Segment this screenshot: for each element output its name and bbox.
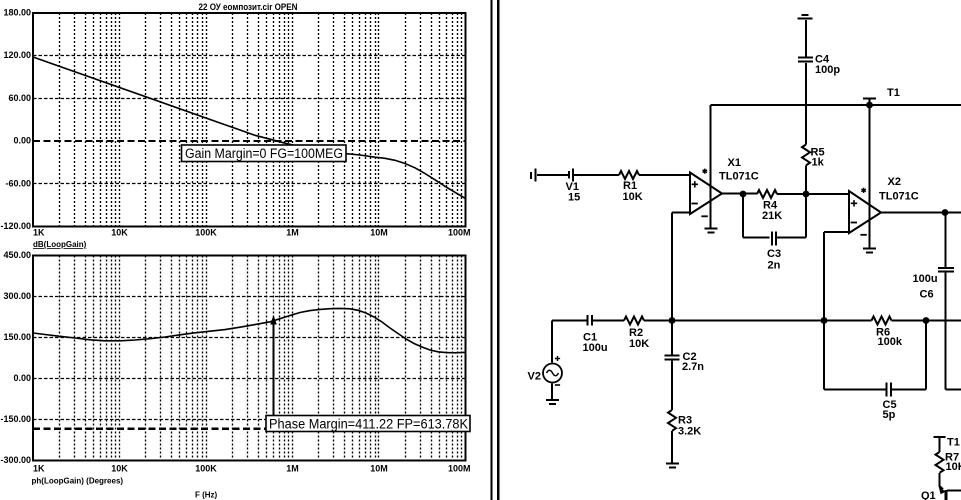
- svg-text:-300.00: -300.00: [0, 455, 31, 465]
- svg-text:-60.00: -60.00: [5, 178, 31, 188]
- svg-text:2n: 2n: [768, 260, 781, 272]
- svg-text:Gain Margin=0 FG=100MEG: Gain Margin=0 FG=100MEG: [185, 146, 343, 161]
- svg-text:15: 15: [568, 192, 580, 204]
- svg-text:2.7n: 2.7n: [682, 361, 704, 373]
- svg-text:100K: 100K: [195, 464, 217, 474]
- svg-text:450.00: 450.00: [3, 250, 31, 260]
- svg-text:150.00: 150.00: [3, 332, 31, 342]
- svg-text:T1: T1: [887, 87, 900, 99]
- svg-text:10K: 10K: [111, 464, 128, 474]
- svg-text:22 ОУ еомпозит.cir OPEN: 22 ОУ еомпозит.cir OPEN: [199, 2, 298, 13]
- svg-text:10K: 10K: [111, 228, 128, 238]
- svg-text:TL071C: TL071C: [719, 171, 759, 183]
- svg-text:Q1: Q1: [921, 490, 936, 500]
- svg-text:ph(LoopGain) (Degrees): ph(LoopGain) (Degrees): [32, 477, 124, 486]
- svg-text:60.00: 60.00: [8, 93, 31, 103]
- svg-text:-150.00: -150.00: [0, 414, 31, 424]
- svg-text:10M: 10M: [370, 228, 388, 238]
- svg-text:10K: 10K: [629, 338, 649, 350]
- svg-text:10K: 10K: [623, 191, 643, 203]
- svg-text:100M: 100M: [448, 228, 471, 238]
- svg-text:1M: 1M: [286, 228, 299, 238]
- svg-text:F (Hz): F (Hz): [195, 491, 218, 500]
- svg-text:T1: T1: [947, 437, 960, 449]
- svg-text:C6: C6: [920, 289, 934, 301]
- svg-text:1M: 1M: [286, 464, 299, 474]
- svg-text:100u: 100u: [583, 342, 608, 354]
- svg-text:Phase Margin=411.22 FP=613.78K: Phase Margin=411.22 FP=613.78K: [269, 417, 468, 432]
- svg-text:TL071C: TL071C: [879, 191, 919, 203]
- svg-text:120.00: 120.00: [3, 50, 31, 60]
- svg-text:100u: 100u: [913, 273, 938, 285]
- svg-text:21K: 21K: [762, 210, 782, 222]
- svg-text:-120.00: -120.00: [0, 221, 31, 231]
- svg-text:300.00: 300.00: [3, 291, 31, 301]
- svg-text:100K: 100K: [195, 228, 217, 238]
- svg-text:C3: C3: [767, 248, 781, 260]
- svg-text:0.00: 0.00: [13, 136, 31, 146]
- svg-text:10K: 10K: [946, 461, 961, 473]
- svg-text:100k: 100k: [878, 336, 903, 348]
- svg-text:X1: X1: [728, 157, 741, 169]
- svg-text:3.2K: 3.2K: [678, 426, 701, 438]
- svg-text:0.00: 0.00: [13, 373, 31, 383]
- svg-text:5p: 5p: [883, 409, 896, 421]
- svg-text:1k: 1k: [812, 157, 825, 169]
- svg-text:100p: 100p: [815, 64, 840, 76]
- svg-text:V2: V2: [528, 371, 541, 383]
- svg-text:1K: 1K: [33, 464, 45, 474]
- svg-text:1K: 1K: [33, 228, 45, 238]
- svg-text:100M: 100M: [448, 464, 471, 474]
- svg-text:180.00: 180.00: [3, 8, 31, 18]
- svg-text:10M: 10M: [370, 464, 388, 474]
- svg-text:dB(LoopGain): dB(LoopGain): [33, 240, 87, 249]
- svg-text:X2: X2: [888, 176, 901, 188]
